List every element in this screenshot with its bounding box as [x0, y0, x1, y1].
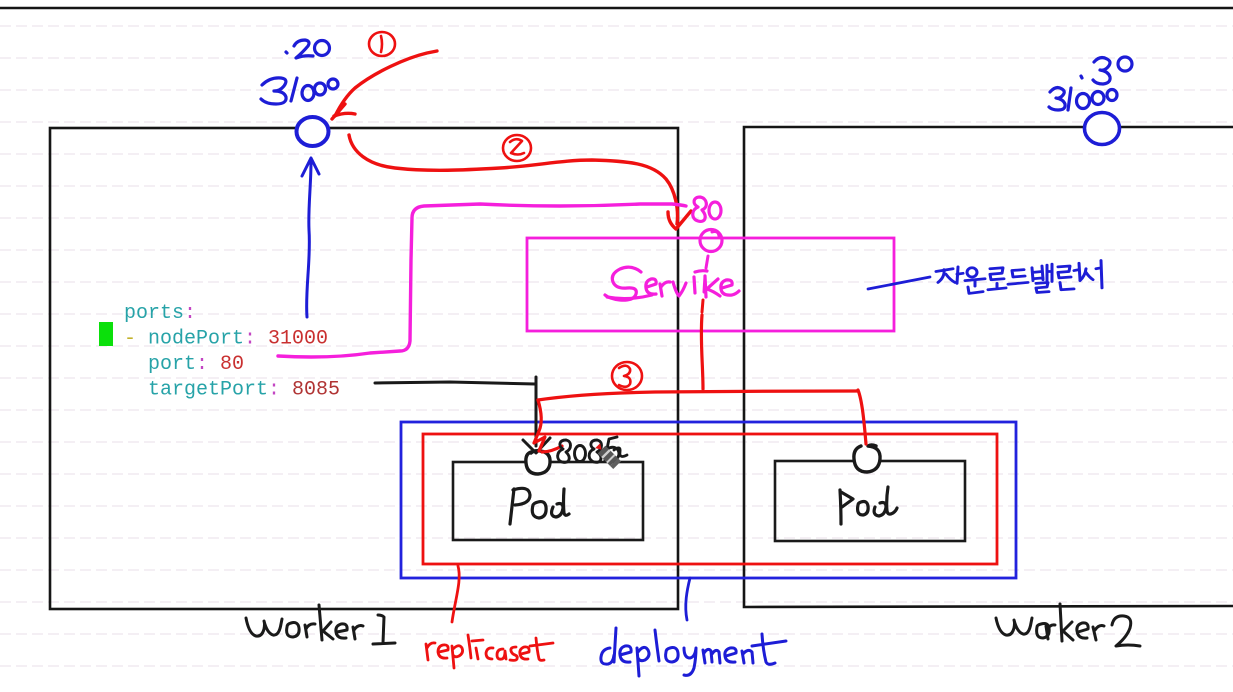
- svg-text:ports: ports: [124, 302, 184, 325]
- worker 2 node box: [744, 127, 1233, 607]
- svg-text:31000: 31000: [268, 328, 328, 351]
- port 80 circle on service: [700, 230, 722, 252]
- svg-text::: :: [268, 379, 280, 402]
- magenta dashed line through service: [704, 256, 708, 292]
- svg-text:port: port: [148, 353, 196, 376]
- pod 1 box: [453, 462, 643, 540]
- handwritten Worker 1 label: [246, 605, 395, 644]
- step 2 red circled number: [503, 135, 531, 161]
- svg-text:80: 80: [220, 353, 244, 376]
- handwritten worker 2 label: [996, 604, 1140, 646]
- step 1 red arrow to nodePort: [332, 51, 437, 119]
- svg-text::: :: [244, 328, 256, 351]
- svg-text:-: -: [124, 328, 136, 351]
- tail squiggle of 5 beside cursor: [614, 448, 627, 457]
- port 8085 circle on pod 1: [527, 452, 549, 473]
- svg-text::: :: [196, 353, 208, 376]
- yaml code text: [124, 302, 340, 402]
- port circle on pod 2: [855, 447, 879, 471]
- step 1 red circled number: [369, 32, 395, 56]
- blue line from deployment box to label: [686, 578, 690, 620]
- svg-text:8085: 8085: [292, 379, 340, 402]
- red dashed continuation below service: [702, 300, 703, 312]
- blue line from service to korean label: [868, 277, 930, 289]
- handwritten 8085 on pod1 port: [558, 437, 619, 462]
- replicaset box: [423, 434, 997, 564]
- top rule line: [0, 7, 1233, 9]
- nodePort circle on worker 2: [1085, 113, 1120, 145]
- black line from targetPort yaml to pod 1 port: [375, 377, 550, 453]
- handwritten 80 on service: [693, 197, 721, 221]
- svg-text::: :: [184, 302, 196, 325]
- step 2 red curve from nodePort to service port: [349, 135, 691, 229]
- deployment box: [401, 422, 1016, 578]
- handwritten .20: [286, 40, 330, 58]
- service box: [527, 238, 894, 331]
- blue arrow from yaml to nodePort: [302, 158, 319, 317]
- red line from replicaset box to label: [452, 566, 459, 622]
- handwritten pod label 2: [840, 487, 897, 524]
- handwritten korean load balancer label: [936, 260, 1102, 293]
- step 3 red circled number: [612, 362, 642, 390]
- svg-text:targetPort: targetPort: [148, 379, 268, 402]
- svg-text:nodePort: nodePort: [148, 328, 244, 351]
- red route from service to pods: [534, 315, 866, 452]
- pod 2 box: [775, 461, 965, 541]
- handwritten Pod label 1: [510, 488, 569, 524]
- magenta line from port:80 yaml to service port 80: [278, 204, 686, 357]
- handwritten replicaset label: [426, 635, 553, 668]
- handwritten Service label: [605, 267, 739, 300]
- handwritten .30: [1081, 57, 1132, 84]
- worker 1 node box: [50, 128, 678, 609]
- mouse cursor icon: [594, 442, 621, 469]
- handwritten 31000 left: [261, 78, 338, 104]
- nodePort circle on worker 1: [297, 117, 329, 146]
- handwritten 31000 right: [1049, 88, 1117, 110]
- yaml cursor block: [99, 322, 113, 346]
- handwritten deployment label: [601, 628, 786, 676]
